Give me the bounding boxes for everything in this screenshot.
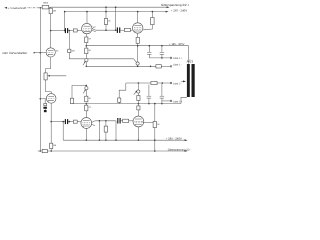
pentode V5 bbox=[81, 118, 92, 129]
resistor R1 bbox=[42, 5, 49, 8]
resistor R2 (anode load V1) bbox=[50, 7, 52, 8]
capacitor C4 bbox=[117, 27, 118, 33]
svg-text:1M: 1M bbox=[71, 50, 74, 53]
resistor R17 bbox=[85, 96, 88, 102]
pot P4 left network bbox=[72, 85, 86, 98]
wire Litze1+ line bbox=[149, 57, 170, 59]
wire from rail2 bbox=[64, 12, 66, 31]
svg-text:1M: 1M bbox=[53, 10, 56, 13]
resistor R13 bbox=[151, 82, 157, 85]
svg-text:vom Vorverstärker: vom Vorverstärker bbox=[2, 51, 27, 55]
capacitor C2 stack bbox=[44, 99, 46, 104]
wire lower screen row bbox=[95, 120, 116, 122]
wire cathode V1 bbox=[46, 57, 51, 73]
wire rail2 bbox=[65, 11, 166, 13]
node bbox=[150, 66, 152, 68]
wire cap col down bbox=[115, 121, 117, 140]
potentiometer P5 arrow bbox=[83, 90, 85, 93]
wire anode V2 bbox=[86, 12, 88, 24]
svg-text:+ 185 - 300V: + 185 - 300V bbox=[169, 43, 185, 46]
resistor R19 bbox=[123, 119, 129, 122]
wire grid leak bbox=[68, 31, 70, 50]
svg-text:Litze 1 -: Litze 1 - bbox=[173, 64, 182, 67]
wire V5 pin drop bbox=[98, 121, 100, 140]
right vertical chain bbox=[154, 104, 156, 122]
capacitor C3 bbox=[65, 119, 66, 124]
resistor R7 screen V4 bbox=[151, 12, 153, 18]
pentode V2 bbox=[82, 23, 92, 33]
svg-text:Litze 2 -: Litze 2 - bbox=[173, 82, 182, 85]
capacitor C9 bbox=[117, 118, 118, 124]
node bbox=[50, 30, 52, 32]
potentiometer P4 arrow bbox=[134, 92, 137, 95]
resistor R3 bbox=[73, 29, 77, 32]
pentode V6 bbox=[133, 116, 144, 127]
resistor R23 bbox=[153, 122, 156, 128]
capacitor C6 bbox=[161, 46, 163, 52]
wire left bus bbox=[39, 8, 41, 99]
svg-text:Litze 2 +: Litze 2 + bbox=[173, 100, 183, 103]
wire anode V5 bbox=[85, 128, 87, 140]
resistor R15 bbox=[137, 106, 140, 110]
resistor R9 bbox=[85, 48, 88, 54]
wire dash-dot input bbox=[24, 7, 40, 9]
wire rail4 left stub bbox=[38, 150, 42, 152]
svg-text:+ 287 - 240V: + 287 - 240V bbox=[171, 8, 187, 12]
capacitor C8 bbox=[161, 83, 163, 96]
resistor R22 bbox=[50, 143, 53, 148]
wire from rail1 bbox=[115, 7, 117, 30]
svg-text:v. Tonabnehmer: v. Tonabnehmer bbox=[8, 7, 26, 10]
resistor R5 drop from rail2 bbox=[105, 7, 107, 18]
resistor R4 bbox=[73, 120, 77, 123]
trimmer circle V2 bbox=[85, 59, 88, 62]
transformer winding bar1 bbox=[187, 64, 190, 97]
resistor R20 drop bbox=[105, 121, 107, 126]
wire rail3 bbox=[63, 139, 185, 141]
resistor R14 bbox=[137, 96, 140, 101]
wire L left bbox=[119, 83, 126, 98]
wire line y83 bbox=[126, 82, 170, 84]
wire bbox=[40, 7, 42, 9]
trimmer circle V5 bbox=[85, 85, 87, 86]
pentode V4 bbox=[133, 23, 143, 33]
capacitor C5 bbox=[148, 46, 150, 52]
node bbox=[86, 45, 88, 47]
wire to V3 bbox=[46, 80, 52, 94]
wire anode V6 bbox=[137, 127, 139, 140]
svg-text:Gitterspannung 2/2 -: Gitterspannung 2/2 - bbox=[168, 148, 192, 151]
wire V6 screen bbox=[144, 122, 154, 124]
svg-text:AÜ1: AÜ1 bbox=[187, 59, 194, 63]
wire grid V1 bbox=[36, 52, 46, 54]
resistor R11 bbox=[156, 65, 161, 68]
svg-text:1M: 1M bbox=[53, 144, 56, 147]
wire grid V3 bbox=[40, 98, 46, 100]
rail3 arrow bbox=[185, 139, 188, 141]
capacitor C1 bbox=[65, 28, 66, 33]
wire rail4 left bbox=[40, 150, 42, 152]
wire coupling top bbox=[51, 30, 66, 32]
wire to rail3 bbox=[62, 122, 64, 141]
wire Litze2+ terminal bbox=[162, 100, 170, 102]
wire to transformer top bbox=[188, 46, 190, 64]
V4 cathode chain bbox=[137, 33, 139, 37]
resistor R16 bbox=[70, 98, 73, 103]
rail2 arrow bbox=[166, 11, 169, 13]
input arrow 2 bbox=[34, 52, 37, 54]
V6 chain top bbox=[137, 83, 139, 90]
wire coupling bottom bbox=[51, 121, 66, 123]
potentiometer P1 bbox=[44, 73, 47, 80]
transformer tap arrow bbox=[181, 80, 183, 82]
resistor R6 bbox=[124, 28, 130, 31]
triode V3 bbox=[46, 94, 56, 104]
resistor R10 bbox=[136, 37, 139, 43]
resistor R25 bbox=[68, 49, 71, 52]
node bbox=[64, 30, 66, 32]
transformer winding bar2 bbox=[192, 64, 195, 97]
resistor R8 bbox=[85, 37, 88, 43]
wire mid-lower line bbox=[72, 103, 181, 105]
potentiometer P2 arrow bbox=[83, 62, 85, 65]
resistor R24 bbox=[118, 98, 121, 102]
rail4 arrow bbox=[185, 150, 188, 152]
wire anode V1 bbox=[50, 14, 52, 48]
wire to V2 grid bbox=[77, 30, 82, 32]
V2 cathode chain bbox=[85, 34, 87, 37]
wire long line to transformer bbox=[86, 45, 188, 47]
svg-text:+ 185 - 240V: + 185 - 240V bbox=[166, 136, 182, 140]
resistor R18 bbox=[85, 105, 88, 111]
wire screen row bbox=[96, 29, 117, 31]
node grid bus bbox=[40, 52, 42, 54]
wire anode V4 bbox=[137, 12, 139, 23]
svg-text:Gitterspannung 2/2 +: Gitterspannung 2/2 + bbox=[161, 3, 189, 7]
wire anode V3 bbox=[50, 103, 52, 143]
input arrow bbox=[4, 7, 7, 9]
trimmer circle V4 bbox=[134, 59, 137, 62]
wire rail1 bbox=[49, 6, 167, 8]
node bbox=[69, 30, 71, 32]
node input junction bbox=[40, 7, 42, 9]
V5 right pins bbox=[92, 124, 96, 125]
V2 right pins bbox=[92, 30, 96, 31]
wire bus down bbox=[39, 99, 41, 151]
wire mid line bbox=[86, 65, 156, 67]
rail1 arrow bbox=[167, 6, 170, 8]
capacitor C7 bbox=[148, 85, 150, 96]
svg-text:Litze 1 +: Litze 1 + bbox=[173, 57, 183, 60]
triode V1 bbox=[46, 48, 55, 57]
resistor R21 bbox=[42, 149, 47, 152]
node bbox=[86, 66, 88, 68]
